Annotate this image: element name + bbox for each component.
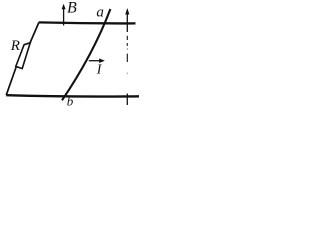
arrow I (current) xyxy=(89,60,102,62)
dimension line bottom tick xyxy=(126,94,128,106)
dimension line dot xyxy=(126,48,128,49)
wire bottom rail xyxy=(6,95,139,96)
resistor R xyxy=(16,43,30,69)
svg-text:R: R xyxy=(10,38,20,54)
dimension line dash 3 xyxy=(126,54,128,62)
dimension line faint dash xyxy=(126,73,128,75)
arrow B (field direction) xyxy=(63,8,65,26)
dimension line arrow top xyxy=(126,11,128,33)
svg-text:B: B xyxy=(67,0,77,17)
wire left diagonal lower segment xyxy=(6,67,16,95)
svg-text:b: b xyxy=(67,94,74,109)
dimension line dash 2 xyxy=(126,43,128,46)
rod ab xyxy=(62,9,110,100)
wire left diagonal upper segment xyxy=(30,22,39,43)
svg-text:a: a xyxy=(96,5,104,21)
wire top rail xyxy=(39,22,136,23)
dimension line dash 1 xyxy=(126,36,128,40)
